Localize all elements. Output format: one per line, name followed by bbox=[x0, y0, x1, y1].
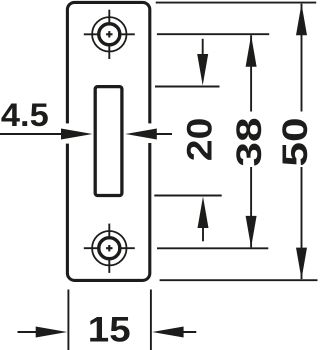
dimension 20 lower leader line bbox=[202, 220, 204, 241]
dimension 50 arrowhead down bbox=[296, 248, 307, 280]
svg-text:38: 38 bbox=[230, 117, 269, 166]
plate outline bbox=[67, 2, 149, 280]
dimension 4.5 right leader line bbox=[150, 133, 172, 135]
dimension 38 line upper bbox=[250, 35, 252, 111]
dimension 15 right arrowhead bbox=[152, 327, 184, 338]
extension line 15 left bbox=[67, 290, 69, 350]
extension line 15 right bbox=[150, 290, 152, 350]
screw hole bottom bbox=[84, 224, 135, 273]
svg-text:4.5: 4.5 bbox=[1, 98, 49, 134]
extension line plate top bbox=[156, 2, 317, 4]
gap in plate left edge for 4.5 arrow bbox=[64, 123, 73, 143]
dimension 20 lower arrowhead bbox=[198, 197, 209, 229]
dimension 38 line lower bbox=[250, 167, 252, 247]
extension line slot top bbox=[155, 86, 220, 88]
dimension 15 right leader line bbox=[180, 331, 196, 333]
dimension 50 line lower bbox=[301, 167, 303, 279]
extension line hole top center bbox=[157, 33, 269, 35]
svg-text:50: 50 bbox=[276, 117, 315, 166]
dimension 4.5 left arrowhead bbox=[61, 129, 93, 140]
dimension 50 line upper bbox=[301, 4, 303, 112]
dimension 15 left leader line bbox=[18, 331, 41, 333]
dimension 20 upper leader line bbox=[202, 39, 204, 60]
extension line plate bottom bbox=[160, 279, 318, 281]
svg-text:15: 15 bbox=[88, 310, 131, 349]
extension line slot bottom bbox=[154, 195, 221, 197]
dimension 38 arrowhead down bbox=[246, 216, 257, 248]
dimension 4.5 right arrowhead bbox=[125, 129, 157, 140]
dimension 38 arrowhead up bbox=[246, 35, 257, 66]
screw hole top bbox=[84, 10, 135, 59]
slot bbox=[95, 87, 122, 196]
dimension 4.5 left leader line bbox=[0, 133, 65, 135]
gap in plate right edge for 4.5 arrow bbox=[146, 123, 155, 143]
svg-text:20: 20 bbox=[180, 118, 220, 162]
dimension 15 left arrowhead bbox=[36, 327, 67, 338]
extension line hole bottom center bbox=[157, 247, 268, 249]
dimension 20 upper arrowhead bbox=[197, 54, 208, 86]
dimension 50 arrowhead up bbox=[296, 4, 307, 36]
